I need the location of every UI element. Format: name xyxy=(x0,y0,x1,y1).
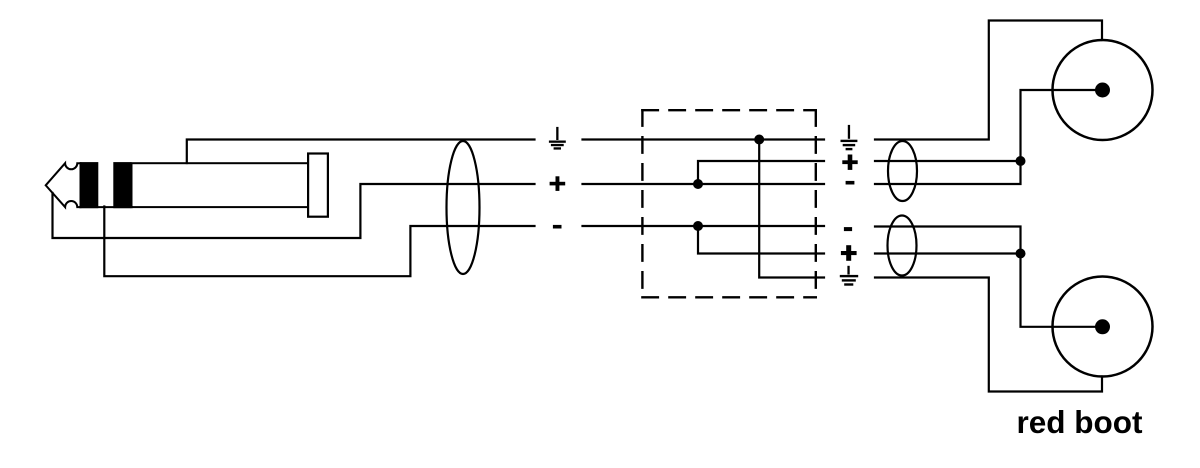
svg-text:red boot: red boot xyxy=(1017,404,1143,440)
